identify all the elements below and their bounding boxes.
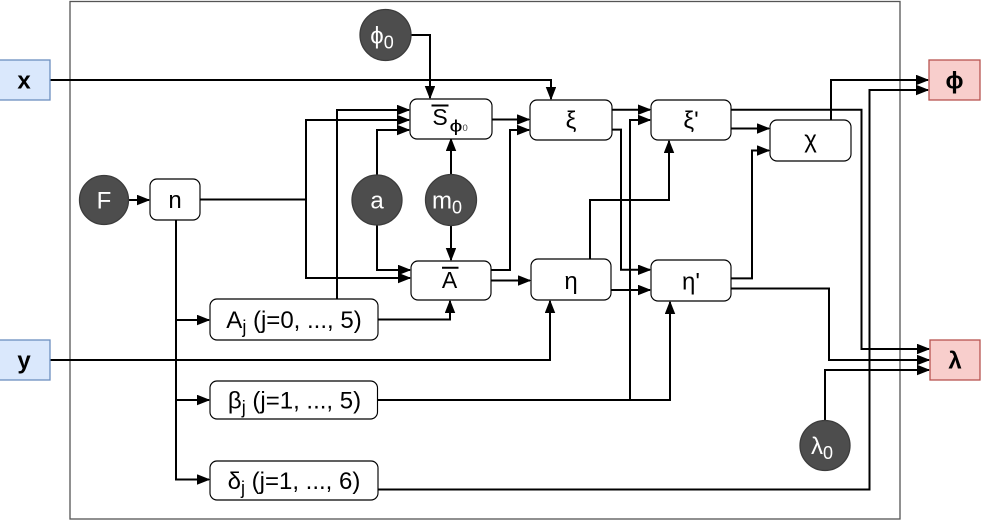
box betaj [210,381,378,419]
svg-text:ϕ: ϕ [450,117,463,136]
svg-text:η': η' [682,269,700,296]
wire F to n [128,199,149,201]
svg-text:x: x [17,68,31,95]
box deltaj [210,461,378,500]
svg-text:a: a [370,188,384,215]
svg-text:δj (j=1, ..., 6): δj (j=1, ..., 6) [228,468,361,498]
wire Aj top to Sbar left upper [337,110,409,299]
wire eta to eta-prime left lower [611,289,650,291]
const m0 [426,175,477,226]
wire n to bus stub [200,199,306,201]
box xi [530,100,612,140]
svg-text:0: 0 [463,123,468,134]
wire xi to eta-prime left upper [612,130,650,270]
svg-text:ξ: ξ [566,107,577,134]
box n [150,179,200,220]
wire Abar to xi left lower [491,130,529,270]
wire Sbar to xi left upper [492,119,529,121]
svg-text:Aj (j=0, ..., 5): Aj (j=0, ..., 5) [226,307,361,337]
wire bus to Abar left lower [306,200,410,279]
const lambda0 [800,421,850,471]
wire Aj to Abar bottom [378,301,450,320]
wire xi-prime to chi left upper [731,128,769,130]
svg-text:y: y [17,348,31,375]
wire a to Abar left upper [377,224,410,270]
box Aj [210,299,378,340]
wire lambda0 to lambda lower [825,370,929,420]
wire xi-prime to lambda upper [731,110,929,349]
wire eta top to xi-prime bottom [590,141,669,259]
wire betaj stub to junction [378,399,631,401]
svg-text:S: S [432,104,447,130]
wire y to eta bottom [50,301,550,360]
output phi [929,60,980,100]
wire a to Sbar left lower [377,130,409,176]
const phi0 [360,10,411,61]
box chi [770,120,851,161]
svg-text:χ: χ [804,127,817,154]
wire n down bus [176,220,209,480]
wire eta-prime to chi left lower [731,151,769,279]
svg-text:F: F [97,188,112,215]
input y [0,340,50,380]
const a [352,175,402,225]
const F [80,176,129,225]
wire xi to xi-prime left upper [612,109,650,111]
svg-text:A: A [442,267,458,293]
wire betaj junction to xi-prime left lower [630,120,650,400]
output lambda [930,340,980,380]
wire n bus to Aj left [176,319,209,321]
svg-text:βj (j=1, ..., 5): βj (j=1, ..., 5) [228,388,361,418]
wire bus to Sbar left middle [306,120,409,200]
svg-text:λ: λ [948,348,961,375]
wire phi0 to Sbar top [411,35,430,98]
svg-text:ξ': ξ' [683,107,698,134]
wire Abar to eta left [491,280,530,282]
wire m0 to Abar top [450,225,452,260]
wire chi top to phi upper [831,80,928,120]
box eta-prime [651,260,731,301]
wire x to xi top [50,80,551,99]
wire m0 to Sbar bottom [450,139,452,175]
wire deltaj to phi lower [378,90,928,490]
svg-text:ϕ: ϕ [946,68,964,95]
svg-text:n: n [168,187,181,214]
svg-text:η: η [564,268,577,295]
wire betaj junction to eta-prime bottom [630,302,670,400]
wire n bus to betaj left [176,399,209,401]
box xi-prime [651,100,731,140]
wire eta-prime to lambda middle [731,289,929,361]
box Sbar_phi0 [410,99,492,139]
box Abar [411,261,491,300]
box eta [531,259,611,300]
input x [0,60,50,100]
